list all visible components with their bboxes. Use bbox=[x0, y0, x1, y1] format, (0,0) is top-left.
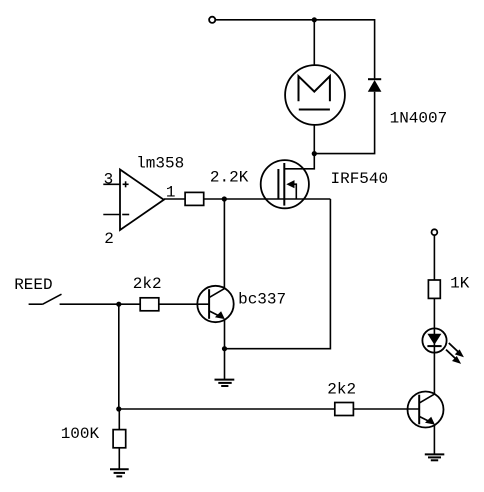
wire: node to MOSFET drain bbox=[284, 154, 314, 169]
resistor R1 2.2K bbox=[185, 192, 204, 205]
pin 3 lead bbox=[103, 183, 120, 185]
resistor R3 100K bbox=[113, 430, 126, 448]
junction: emitter/source ground node bbox=[222, 346, 227, 351]
wire: junction to motor + bbox=[313, 20, 315, 66]
svg-text:2k2: 2k2 bbox=[327, 381, 356, 399]
svg-text:REED: REED bbox=[14, 276, 52, 294]
wire: diode cathode branch bbox=[374, 19, 376, 78]
junction: reed/100K node bbox=[116, 302, 121, 307]
wire: diode anode to node bbox=[314, 92, 374, 154]
wire: Q3 collector to LED cathode bbox=[433, 353, 435, 395]
transistor Q3 bbox=[408, 392, 444, 428]
wire: op-amp output to R1 bbox=[164, 198, 185, 200]
wire: Q3 emitter to ground bbox=[433, 425, 435, 455]
wire: motor - to node bbox=[313, 125, 315, 154]
terminal: LED supply bbox=[432, 229, 438, 235]
junction: gate node bbox=[222, 196, 227, 201]
wire: emitter to ground node bbox=[224, 319, 226, 349]
op-amp U1 lm358 bbox=[120, 170, 164, 231]
svg-text:2.2K: 2.2K bbox=[210, 169, 249, 187]
resistor R5 1K bbox=[428, 280, 440, 298]
svg-text:IRF540: IRF540 bbox=[331, 170, 389, 188]
diode D1 1N4007 bbox=[368, 79, 382, 92]
wire: top supply rail bbox=[216, 19, 375, 21]
transistor Q2 bc337 bbox=[197, 286, 233, 322]
svg-text:1K: 1K bbox=[450, 275, 470, 293]
svg-text:bc337: bc337 bbox=[238, 291, 286, 309]
svg-text:3: 3 bbox=[104, 171, 114, 189]
reed switch S1 bbox=[29, 294, 62, 304]
junction: motor/diode/drain node bbox=[312, 151, 317, 156]
svg-text:lm358: lm358 bbox=[136, 154, 184, 172]
wire: gate rail bbox=[204, 198, 331, 200]
svg-text:100K: 100K bbox=[61, 425, 100, 443]
wire: LED body vertical bbox=[433, 329, 435, 353]
LED D2 bbox=[422, 328, 446, 352]
resistor R2 2k2 bbox=[140, 298, 159, 311]
svg-text:2: 2 bbox=[104, 230, 114, 248]
wire: 1K to LED anode bbox=[433, 298, 435, 328]
junction: 100K top node bbox=[116, 406, 121, 411]
wire: switch to R2 bbox=[60, 303, 141, 305]
junction: motor top node bbox=[312, 17, 317, 22]
wire: source loop bbox=[225, 199, 331, 349]
svg-text:1N4007: 1N4007 bbox=[390, 110, 448, 128]
ground: bc337 emitter bbox=[215, 349, 235, 386]
wire: R2 to bc337 base bbox=[159, 303, 209, 305]
svg-text:1: 1 bbox=[166, 184, 176, 202]
ground: 100K bbox=[110, 469, 129, 476]
resistor R4 2k2 bbox=[335, 403, 354, 416]
wire: terminal to 1K bbox=[433, 235, 435, 280]
MOSFET Q1 IRF540 bbox=[261, 160, 309, 208]
wire: gate node to bc337 collector bbox=[223, 199, 225, 289]
motor M1 bbox=[285, 65, 345, 125]
terminal: motor supply + bbox=[209, 17, 215, 23]
wire: R4 to Q3 base bbox=[353, 408, 419, 410]
wire: lower rail to R4 bbox=[119, 408, 334, 410]
wire: 100K bottom lead bbox=[118, 448, 120, 470]
LED light arrows bbox=[446, 343, 464, 364]
wire: reed node down to lower rail bbox=[118, 304, 120, 409]
svg-text:2k2: 2k2 bbox=[133, 275, 162, 293]
wire: 100K top lead bbox=[118, 409, 120, 430]
ground: Q3 emitter bbox=[425, 454, 445, 460]
pin 2 lead bbox=[103, 214, 120, 216]
